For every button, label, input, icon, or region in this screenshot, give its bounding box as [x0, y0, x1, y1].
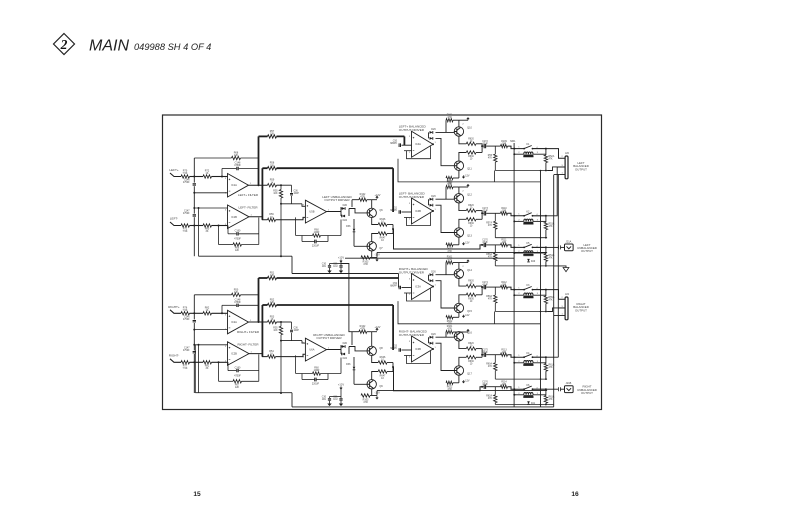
- svg-text:K6: K6: [526, 384, 530, 387]
- XLR connector J20: [565, 156, 568, 179]
- svg-text:2: 2: [462, 124, 464, 126]
- op-amp B non-inverting input wire: [194, 207, 227, 209]
- thick bus vertical from A output: [258, 278, 260, 322]
- svg-text:47K: 47K: [549, 257, 554, 259]
- svg-text:47K: 47K: [488, 366, 493, 368]
- wire: [190, 176, 204, 178]
- wire bus into IC4A: [403, 136, 405, 145]
- resistor R109: [501, 144, 508, 147]
- input stub wire: [170, 359, 181, 363]
- bus resistor R52: [262, 304, 267, 306]
- transistor Q11: [454, 161, 463, 170]
- divider resistor R55: [280, 322, 282, 326]
- svg-text:3K: 3K: [206, 230, 209, 233]
- thick bus vertical from B output: [261, 168, 263, 220]
- svg-text:OUTPUT DRIVER: OUTPUT DRIVER: [316, 336, 342, 340]
- svg-text:2: 2: [462, 191, 464, 193]
- svg-text:3: 3: [225, 178, 227, 180]
- emitter resistor lower R630: [459, 153, 466, 162]
- feedback capacitor: [221, 305, 223, 313]
- collector wire lower / -12V: [458, 237, 460, 245]
- resistor R113: [501, 353, 508, 356]
- svg-text:47K: 47K: [549, 367, 554, 369]
- input stub wire: [170, 173, 181, 177]
- emitter resistor R646: [372, 218, 379, 225]
- svg-text:10R: 10R: [502, 143, 507, 145]
- wire: [193, 354, 195, 393]
- bus resistor R57: [259, 135, 268, 137]
- resistor R54: [268, 355, 276, 358]
- wire driver output to relay row: [393, 367, 482, 391]
- left rail bottom channel: [194, 345, 196, 393]
- wire to relay: [508, 387, 524, 390]
- svg-text:1: 1: [435, 284, 437, 286]
- input capacitor C53: [402, 349, 412, 351]
- resistor R71: [181, 224, 190, 227]
- svg-text:10U: 10U: [322, 399, 327, 401]
- output node vertical: [481, 349, 483, 358]
- svg-text:D20: D20: [343, 342, 348, 345]
- wire to lower base: [436, 343, 455, 370]
- emitter resistor lower R630: [459, 295, 466, 304]
- shunt resistor R54A: [545, 247, 547, 253]
- lower rail: [495, 404, 553, 406]
- title block: revision diamond 2: [54, 34, 75, 55]
- svg-text:OUTPUT: OUTPUT: [575, 308, 587, 312]
- svg-text:47R: 47R: [447, 259, 452, 261]
- svg-text:D41: D41: [531, 403, 536, 405]
- transistor Q14: [454, 269, 463, 278]
- wire op-amp B output: [249, 217, 268, 220]
- svg-text:K2: K2: [526, 210, 530, 213]
- svg-text:10R: 10R: [502, 284, 507, 286]
- svg-text:IC2A: IC2A: [231, 320, 237, 324]
- svg-text:680PF: 680PF: [390, 143, 397, 145]
- output wire: [327, 349, 342, 351]
- input bus vertical: [193, 295, 195, 320]
- svg-text:K4: K4: [526, 352, 530, 355]
- svg-text:U6A: U6A: [309, 348, 314, 352]
- vertical bus 2: [540, 170, 542, 407]
- bypass capacitor C2: [340, 397, 342, 399]
- divider resistor R55: [280, 185, 282, 189]
- svg-text:10: 10: [470, 226, 473, 228]
- svg-text:Q12: Q12: [467, 194, 472, 197]
- XLR pin 2 wire: [546, 290, 565, 300]
- svg-text:10: 10: [381, 239, 384, 242]
- svg-text:47K: 47K: [488, 398, 493, 400]
- svg-text:OUTPUT: OUTPUT: [581, 249, 593, 253]
- transistor Q6: [367, 208, 376, 217]
- wire to relay: [508, 213, 524, 216]
- input capacitor C50: [402, 144, 412, 146]
- bias wire: [445, 120, 447, 132]
- svg-text:10R: 10R: [502, 242, 507, 244]
- XLR pin 1 wire: [554, 315, 565, 317]
- svg-text:U5B: U5B: [309, 210, 314, 214]
- svg-text:C160: C160: [235, 230, 241, 233]
- feedback wire op-amp A: [194, 157, 231, 159]
- feedback resistor R50: [232, 293, 241, 296]
- transistor Q7: [367, 242, 376, 251]
- svg-text:15: 15: [193, 491, 201, 498]
- wire: [190, 361, 204, 363]
- op-amp IC1B: [228, 205, 250, 229]
- svg-text:10U: 10U: [322, 266, 327, 268]
- bus junction dots: [545, 265, 547, 267]
- resistor R72: [203, 175, 212, 178]
- op-amp B feedback resistor R67: [218, 362, 220, 381]
- svg-text:47R: 47R: [363, 401, 368, 404]
- svg-text:4750F: 4750F: [183, 213, 190, 215]
- op-amp A inverting input wire: [194, 192, 227, 194]
- svg-text:7.5K: 7.5K: [183, 309, 188, 312]
- svg-text:D26: D26: [431, 333, 436, 336]
- wire to relay: [508, 245, 524, 248]
- emitter resistor lower R630: [459, 357, 466, 366]
- svg-text:47UF: 47UF: [482, 143, 488, 145]
- relay K6 coil: [514, 394, 524, 396]
- bus junction dots: [545, 311, 547, 313]
- emitter resistor upper R620: [459, 341, 466, 349]
- svg-text:C160: C160: [235, 366, 241, 369]
- svg-text:K5: K5: [526, 242, 530, 245]
- resistor R81: [203, 361, 212, 364]
- op-amp B feedback capacitor: [227, 362, 229, 370]
- bias wire: [445, 263, 447, 275]
- wire bus into IC3A: [398, 274, 400, 288]
- shunt resistor R56: [494, 146, 496, 154]
- wire: [291, 393, 293, 407]
- svg-text:J22: J22: [565, 293, 570, 296]
- bus resistor R51: [259, 277, 268, 279]
- svg-text:LEFT+ FILTER: LEFT+ FILTER: [238, 193, 259, 197]
- svg-text:-12V: -12V: [464, 175, 469, 178]
- svg-text:12K: 12K: [270, 301, 275, 304]
- feedback sense wire B4: [398, 301, 541, 324]
- bias wire: [445, 332, 447, 337]
- wire to relay: [508, 146, 524, 149]
- vertical ground bus: [553, 175, 555, 407]
- wire to lower base: [436, 138, 455, 165]
- divider capacitor: [291, 185, 293, 192]
- +12V stub: [459, 186, 468, 188]
- wire: [190, 225, 204, 227]
- collector wire / resistor R102: [371, 332, 373, 347]
- XLR pin 2 wire: [546, 149, 565, 159]
- svg-text:12K: 12K: [270, 164, 275, 167]
- svg-text:47UF: 47UF: [482, 211, 488, 213]
- wire into unbalanced driver + input: [281, 340, 302, 342]
- shunt resistor R57A: [494, 213, 496, 221]
- wire: [193, 323, 195, 350]
- relay K4 coil: [514, 362, 524, 364]
- diode D20: [340, 207, 342, 216]
- -12V rail wire right channel: [376, 391, 378, 396]
- transistor Q15: [454, 303, 463, 312]
- wire from relay: [533, 148, 546, 150]
- lower rail: [495, 237, 547, 239]
- resistor R112: [501, 285, 508, 288]
- collector wire lower / -12V: [458, 170, 460, 178]
- wire from relay: [533, 215, 546, 217]
- feedback loop wire: [407, 351, 431, 364]
- bypass rail: [330, 263, 342, 265]
- output node: [392, 363, 394, 372]
- relay K5 coil: [514, 252, 524, 254]
- series capacitor C170: [481, 244, 483, 246]
- emitter resistor lower R630: [459, 219, 466, 228]
- XLR pin 1 wire: [554, 174, 565, 176]
- svg-text:1: 1: [518, 146, 520, 148]
- wire diodes to bases: [348, 209, 350, 217]
- svg-text:2: 2: [409, 219, 411, 221]
- svg-text:-12V: -12V: [464, 380, 469, 383]
- svg-text:RIGHT+: RIGHT+: [168, 305, 180, 309]
- svg-text:10U: 10U: [333, 399, 338, 401]
- svg-text:IC3A: IC3A: [415, 285, 421, 289]
- transistor Q9: [367, 380, 376, 389]
- svg-text:47UF: 47UF: [482, 384, 488, 386]
- +12V stub: [459, 331, 468, 333]
- wire from relay: [533, 356, 546, 358]
- XLR pin 3 wire: [547, 308, 565, 312]
- resistor R82: [203, 312, 212, 315]
- output node vertical: [481, 286, 483, 295]
- ground symbol: [563, 268, 569, 272]
- svg-text:2: 2: [60, 37, 68, 52]
- collector wire / resistor R102: [371, 200, 373, 209]
- bias wire: [445, 187, 447, 199]
- svg-text:47K: 47K: [549, 300, 554, 302]
- op-amp IC4A: [412, 131, 434, 157]
- svg-text:10: 10: [470, 283, 473, 285]
- -12V rail wire left channel: [376, 252, 378, 257]
- relay K2 coil: [514, 220, 524, 222]
- series capacitor C175: [481, 354, 483, 356]
- svg-text:47R: 47R: [360, 327, 365, 330]
- svg-text:OUTPUT: OUTPUT: [581, 391, 593, 395]
- series capacitor C174: [481, 286, 483, 288]
- svg-text:100P: 100P: [294, 193, 300, 195]
- svg-text:2: 2: [409, 357, 411, 359]
- divider ground vertical: [280, 335, 282, 393]
- wire: [193, 186, 195, 213]
- svg-text:Q13: Q13: [467, 235, 472, 238]
- shunt resistor R63A: [545, 389, 547, 395]
- relay K1 coil: [514, 153, 524, 155]
- svg-text:10: 10: [470, 208, 473, 210]
- svg-text:12K: 12K: [235, 386, 240, 389]
- wire to upper base: [436, 336, 455, 338]
- coupling capacitor C-: [193, 352, 196, 353]
- emitter resistor upper R620: [459, 136, 466, 144]
- svg-text:MR1: MR1: [510, 140, 516, 143]
- phono jack J21A: [546, 246, 558, 248]
- wire: [241, 157, 259, 159]
- op-amp A inverting input wire: [194, 329, 227, 331]
- svg-text:1: 1: [435, 347, 437, 349]
- wire bus into IC4B: [392, 168, 394, 212]
- svg-text:7.5K: 7.5K: [183, 172, 188, 175]
- op-amp IC2A: [228, 310, 249, 334]
- svg-text:47K: 47K: [549, 226, 554, 228]
- svg-text:1: 1: [435, 209, 437, 211]
- shunt resistor R61A: [545, 357, 547, 363]
- svg-text:RIGHT-: RIGHT-: [169, 353, 179, 357]
- svg-text:3: 3: [225, 209, 227, 211]
- feedback capacitor C38: [301, 236, 303, 242]
- collector resistor lower / -12V: [371, 251, 373, 258]
- svg-text:47K: 47K: [488, 158, 493, 160]
- shunt resistor R52A: [545, 149, 547, 155]
- svg-text:Q14: Q14: [467, 269, 472, 272]
- diode D24: [340, 353, 343, 355]
- wire to upper base: [436, 274, 455, 276]
- shunt resistor R53A: [545, 216, 547, 222]
- svg-text:10U: 10U: [333, 266, 338, 268]
- svg-text:IC2B: IC2B: [231, 352, 237, 356]
- wire: [241, 294, 259, 296]
- lower rail: [495, 311, 547, 313]
- feedback loop wire: [407, 289, 431, 302]
- svg-text:049988 SH 4 OF 4: 049988 SH 4 OF 4: [134, 42, 211, 52]
- wire to unbalanced driver: [276, 217, 306, 219]
- svg-text:100R: 100R: [314, 231, 320, 234]
- svg-text:K1: K1: [526, 143, 530, 146]
- coupling capacitor C+: [193, 184, 196, 185]
- feedback resistor R59B: [295, 217, 297, 235]
- svg-text:Q11: Q11: [467, 168, 472, 171]
- svg-text:12K: 12K: [235, 249, 240, 252]
- op-amp IC3B: [412, 336, 434, 362]
- svg-text:Q17: Q17: [467, 373, 472, 376]
- svg-text:IC3B: IC3B: [415, 347, 421, 351]
- svg-text:Q15: Q15: [467, 310, 472, 313]
- schematic border frame: [163, 115, 602, 410]
- input capacitor C52: [402, 287, 412, 289]
- resistor R70: [181, 175, 190, 178]
- feedback loop wire: [407, 146, 431, 159]
- svg-text:10R: 10R: [502, 384, 507, 386]
- svg-text:Q8: Q8: [379, 347, 383, 350]
- resistor R114: [501, 385, 508, 388]
- svg-text:3: 3: [409, 136, 411, 138]
- resistor R56: [268, 218, 276, 221]
- svg-text:47K: 47K: [549, 399, 554, 401]
- feedback wire op-amp A: [194, 294, 231, 296]
- bypass capacitor C2: [340, 264, 342, 266]
- wire K2 to XLR pin3: [546, 167, 565, 216]
- svg-text:IC4A: IC4A: [415, 142, 421, 146]
- ground: [339, 404, 343, 407]
- svg-text:4750F: 4750F: [234, 238, 241, 241]
- svg-text:2: 2: [462, 266, 464, 268]
- thick bus horizontal to balanced driver: [277, 277, 399, 279]
- svg-text:RIGHT+ FILTER: RIGHT+ FILTER: [237, 330, 260, 334]
- emitter resistor upper R620: [459, 203, 466, 211]
- coupling capacitor C-: [193, 215, 196, 216]
- +12V stub: [459, 119, 468, 121]
- svg-text:Q7: Q7: [379, 247, 383, 250]
- XLR connector J22: [565, 297, 568, 320]
- series capacitor C173: [481, 212, 483, 214]
- svg-text:+12V: +12V: [375, 326, 381, 329]
- svg-text:IC1A: IC1A: [231, 183, 237, 187]
- svg-text:47R: 47R: [447, 389, 452, 391]
- svg-text:OUTPUT: OUTPUT: [575, 167, 587, 171]
- resistor R76: [181, 312, 190, 315]
- svg-text:MAIN: MAIN: [89, 38, 129, 55]
- resistor R77: [181, 361, 190, 364]
- input bus vertical: [193, 158, 195, 183]
- op-amp IC4B: [412, 198, 434, 224]
- bus junction dots: [545, 237, 547, 239]
- wire to upper base: [436, 198, 455, 200]
- diode D20: [340, 345, 342, 354]
- diode D36 to lower base: [353, 357, 355, 367]
- wire rail join: [494, 171, 496, 182]
- svg-text:10: 10: [381, 221, 384, 224]
- wire to relay: [508, 287, 524, 290]
- bypass capacitor C1: [329, 397, 331, 399]
- svg-text:2: 2: [409, 294, 411, 296]
- +12V supply arrow: [372, 331, 377, 333]
- svg-text:4750F: 4750F: [234, 164, 241, 167]
- bus resistor R58: [262, 167, 267, 169]
- wire: [291, 256, 293, 273]
- svg-text:D26: D26: [431, 128, 436, 131]
- thick bus vertical from A output: [258, 136, 260, 185]
- svg-text:J21B: J21B: [566, 382, 572, 385]
- svg-text:4750F: 4750F: [234, 374, 241, 377]
- wire from relay: [533, 289, 546, 291]
- emitter resistor upper R620: [459, 279, 466, 287]
- svg-text:3: 3: [409, 278, 411, 280]
- wire K4 to XLR pin3: [546, 356, 559, 358]
- wire to lower base: [436, 281, 455, 308]
- ground connection wire: [554, 266, 566, 268]
- svg-text:Q10: Q10: [467, 127, 472, 130]
- svg-text:+12V: +12V: [338, 256, 344, 260]
- mid bus to right channel balanced driver: [292, 273, 399, 275]
- ground: [327, 271, 331, 274]
- svg-text:100R: 100R: [314, 369, 320, 372]
- bottom long wire: [292, 406, 554, 408]
- wire: [193, 217, 195, 256]
- collector wire lower / -12V: [458, 313, 460, 318]
- wire bus into IC3B: [392, 305, 394, 350]
- XLR pin 3 wire: [547, 167, 565, 171]
- bypass capacitor C1: [329, 264, 331, 266]
- output node vertical: [481, 144, 483, 153]
- svg-text:J20: J20: [565, 152, 570, 155]
- input stub wire: [170, 310, 181, 314]
- relay diode D40: [527, 259, 530, 262]
- +12V relay rail wire left channel: [345, 257, 514, 259]
- svg-text:1K: 1K: [206, 309, 209, 312]
- svg-text:IC4B: IC4B: [415, 209, 421, 213]
- shunt resistor R60A: [494, 355, 496, 363]
- svg-text:2: 2: [303, 219, 305, 221]
- svg-text:4750F: 4750F: [234, 301, 241, 304]
- shunt resistor R62A: [494, 387, 496, 395]
- bus junction dots: [545, 378, 547, 380]
- svg-text:10K: 10K: [273, 193, 278, 195]
- svg-text:16: 16: [571, 491, 579, 498]
- svg-text:2: 2: [303, 357, 305, 359]
- svg-text:12K: 12K: [270, 133, 275, 136]
